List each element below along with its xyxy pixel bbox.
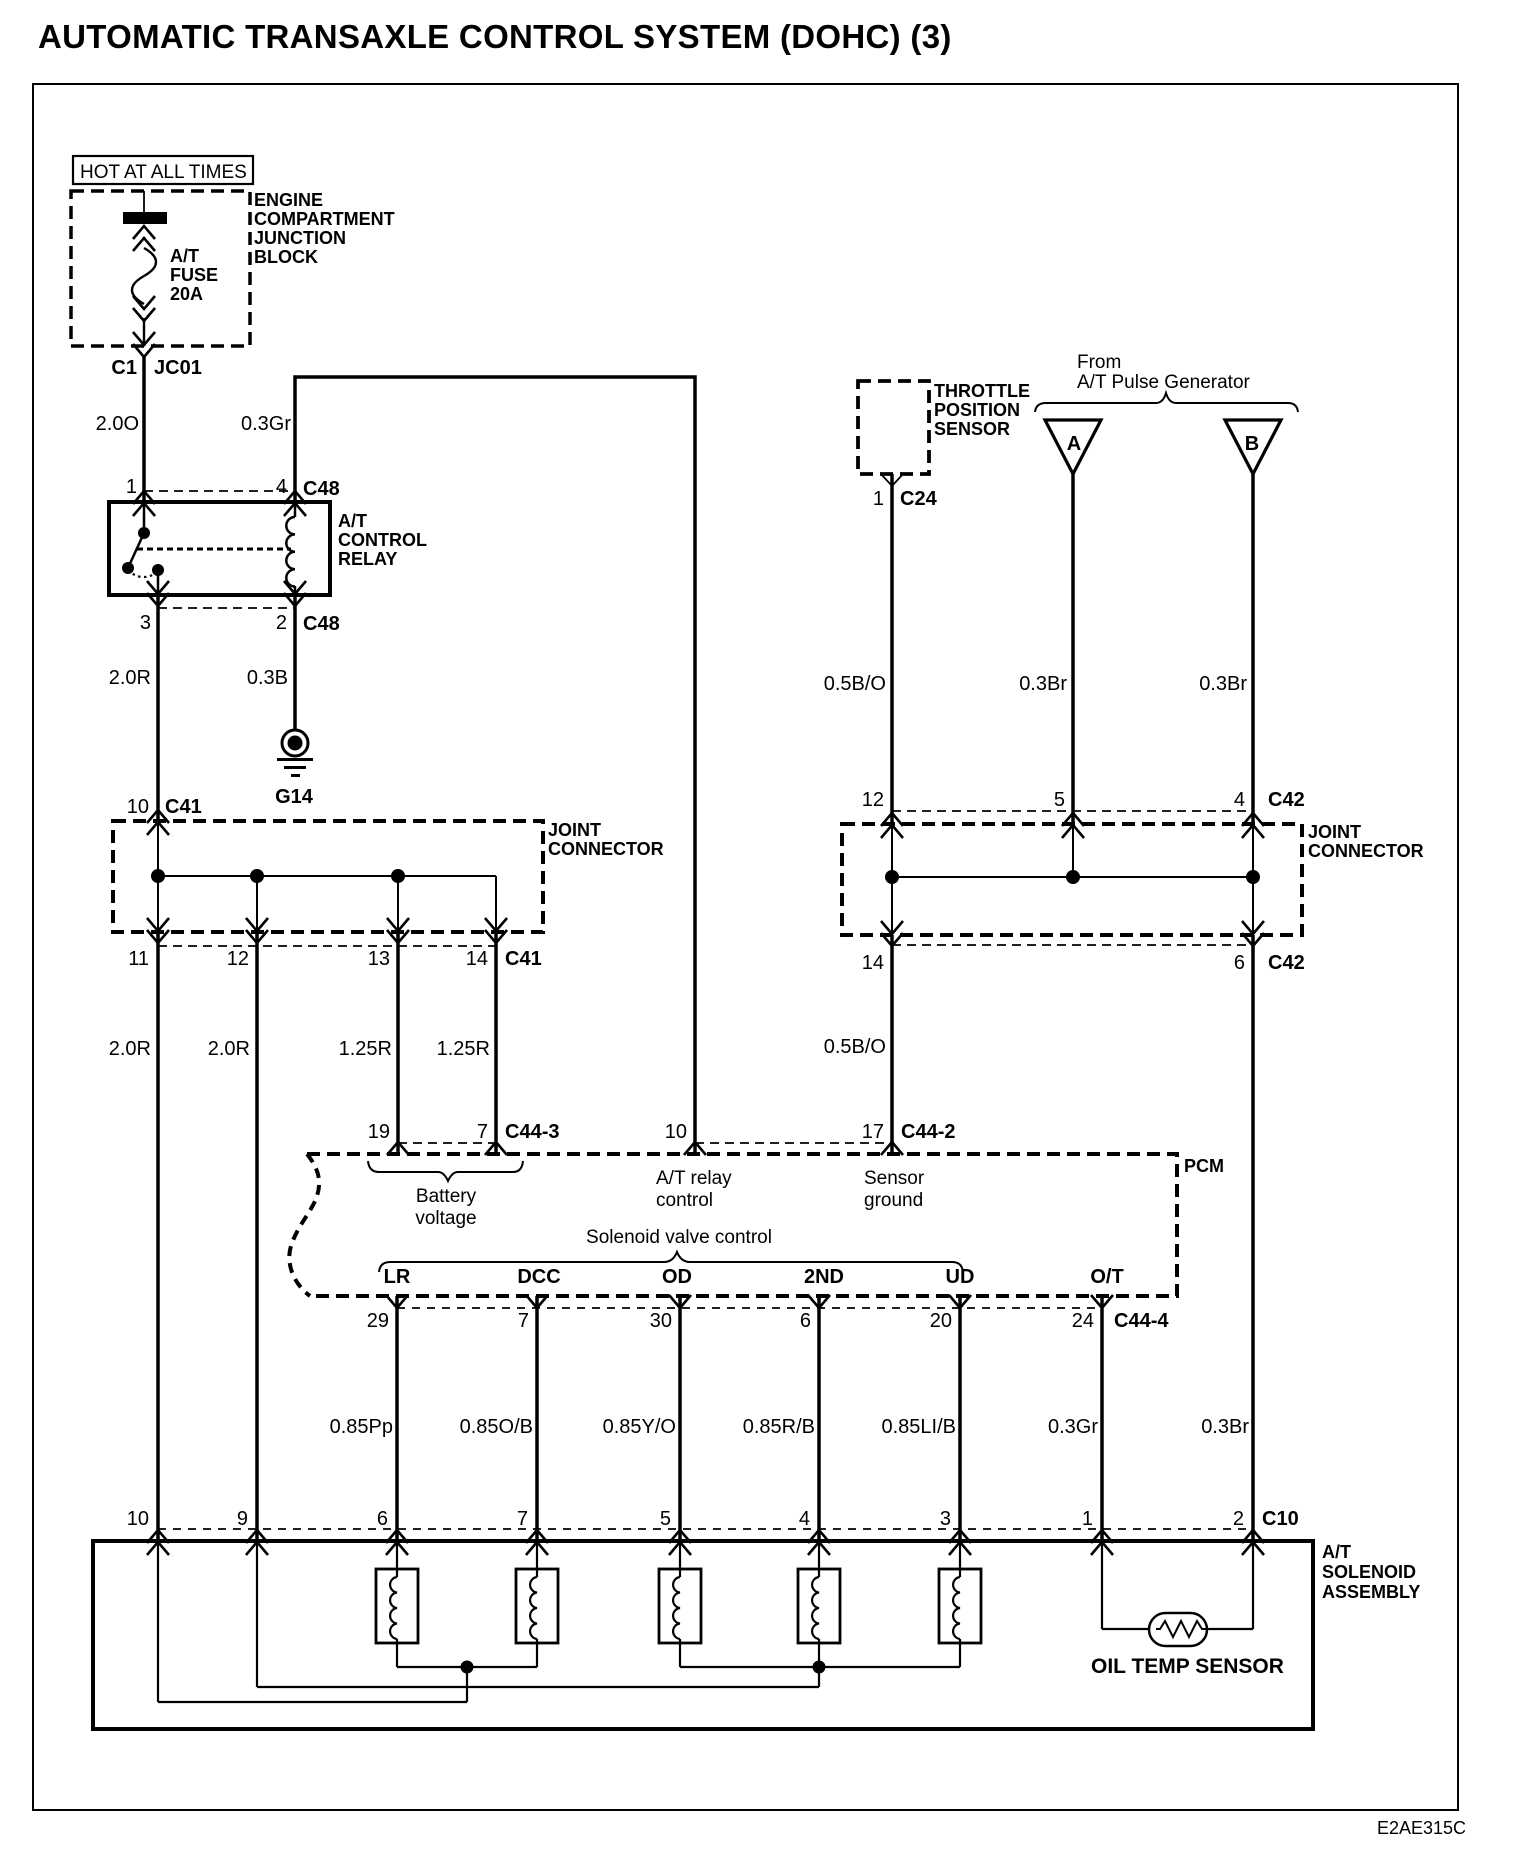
svg-text:29: 29 — [367, 1310, 389, 1332]
brace solenoid valve control pins — [379, 1252, 963, 1272]
svg-text:CONNECTOR: CONNECTOR — [1308, 841, 1424, 861]
C42 pin 12 label — [862, 789, 884, 811]
C41 pin 10 chevrons — [147, 810, 169, 835]
svg-text:DCC: DCC — [517, 1266, 560, 1288]
svg-text:FUSE: FUSE — [170, 265, 218, 285]
brace battery voltage pins — [368, 1161, 523, 1181]
connector label C1 — [111, 357, 137, 379]
PCM pin 20 label — [930, 1310, 952, 1332]
svg-text:C42: C42 — [1268, 789, 1305, 811]
svg-text:G14: G14 — [275, 786, 314, 808]
wire pin 9 internal to OD-2ND-UD junction — [257, 1541, 819, 1687]
wire value label 1.25R (pin 14) — [437, 1038, 490, 1060]
svg-text:O/T: O/T — [1090, 1266, 1123, 1288]
svg-text:10: 10 — [127, 796, 149, 818]
wire junction LR-DCC drop — [466, 1667, 468, 1702]
svg-text:CONNECTOR: CONNECTOR — [548, 839, 664, 859]
svg-text:0.3Br: 0.3Br — [1201, 1416, 1249, 1438]
relay switch armature — [128, 533, 144, 568]
C42 internal bus wire — [892, 876, 1253, 878]
relay pin 4 label — [276, 476, 287, 498]
wire value label 0.85R/B — [743, 1416, 815, 1438]
PCM pin 10 chevrons — [684, 1142, 706, 1155]
svg-text:6: 6 — [377, 1508, 388, 1530]
solenoid connector C10 pin 3 label — [940, 1508, 951, 1530]
solenoid connector C10 pin 5 label — [660, 1508, 671, 1530]
PCM pin 6 chevrons — [808, 1295, 830, 1308]
diagram code E2AE315C — [1377, 1818, 1466, 1838]
connector C1/JC01 chevrons — [133, 332, 155, 357]
solenoid connector C10 pin 6 label — [377, 1508, 388, 1530]
solenoid coil DCC feed wire — [536, 1541, 538, 1577]
svg-text:1: 1 — [126, 476, 137, 498]
PCM output label O/T — [1090, 1266, 1123, 1288]
C42 pin 12 chevrons — [881, 813, 903, 838]
svg-text:5: 5 — [660, 1508, 671, 1530]
svg-text:10: 10 — [127, 1508, 149, 1530]
C42 pin 5 chevrons — [1062, 813, 1084, 838]
relay switch output wire to pin 3 — [157, 570, 160, 595]
pulse generator terminal A (triangle) — [1045, 420, 1101, 474]
svg-text:control: control — [656, 1190, 713, 1211]
wire 0.85LI/B from PCM pin 20 to solenoid pin 3 — [958, 1296, 962, 1541]
wire value label 1.25R (pin 13) — [339, 1038, 392, 1060]
label box HOT AT ALL TIMES — [73, 156, 253, 184]
solenoid connector label C10 — [1262, 1508, 1299, 1530]
relay switch contact dot right — [152, 564, 164, 576]
svg-text:0.5B/O: 0.5B/O — [824, 673, 886, 695]
svg-text:19: 19 — [368, 1121, 390, 1143]
wire 0.3Gr from PCM pin 24 to solenoid pin 1 — [1100, 1296, 1104, 1541]
C42 connector label bottom — [1268, 952, 1305, 974]
svg-text:2ND: 2ND — [804, 1266, 844, 1288]
wire junction 2ND drop — [818, 1667, 820, 1687]
wire pin 10 internal to LR-DCC junction — [158, 1541, 467, 1702]
C42 internal drop wire to pin 6 — [1252, 877, 1254, 935]
svg-text:2: 2 — [1233, 1508, 1244, 1530]
wire 0.3B from relay pin 2 to ground G14 — [293, 595, 297, 730]
joint connector C42 name label — [1308, 822, 1424, 861]
PCM pin 30 label — [650, 1310, 672, 1332]
wire value label 0.3Br (B) — [1199, 673, 1247, 695]
relay pin 2 label — [276, 612, 287, 634]
solenoid coil 2ND feed wire — [818, 1541, 820, 1577]
svg-text:C1: C1 — [111, 357, 137, 379]
solenoid coil LR feed wire — [396, 1541, 398, 1577]
svg-text:30: 30 — [650, 1310, 672, 1332]
svg-text:11: 11 — [128, 948, 149, 970]
C41 bus junction dot 1 — [151, 869, 165, 883]
solenoid coil UD winding — [953, 1577, 960, 1639]
solenoid connector C10 pin 7 label — [517, 1508, 528, 1530]
PCM pin 20 chevrons — [949, 1295, 971, 1308]
solenoid coil UD feed wire — [959, 1541, 961, 1577]
svg-text:THROTTLE: THROTTLE — [934, 381, 1030, 401]
svg-text:C24: C24 — [900, 488, 938, 510]
joint connector C42 dashed box — [842, 824, 1302, 935]
wire UD coil to junction — [959, 1639, 961, 1667]
PCM function label A/T relay control — [656, 1168, 732, 1211]
C42 bus junction dot 3 — [1246, 870, 1260, 884]
C42 bus junction dot 2 — [1066, 870, 1080, 884]
C41 pin 13 label — [368, 948, 390, 970]
relay coil windings — [286, 517, 295, 587]
PCM pin 17 label — [862, 1121, 884, 1143]
C41 bus junction dot 3 — [391, 869, 405, 883]
svg-text:B: B — [1245, 433, 1259, 455]
wire 0.3Br from C42 pin 6 to solenoid pin 2 — [1251, 935, 1255, 1541]
wire 2.0R from relay pin 3 to joint connector C41 pin 10 — [156, 595, 160, 821]
fuse F1 bottom chevrons — [133, 296, 155, 321]
svg-text:SENSOR: SENSOR — [934, 419, 1010, 439]
wire 1.25R from C41 pin 13 to PCM pin 19 — [396, 932, 400, 1154]
wire 0.3Gr from relay pin 4 to PCM pin 10 — [295, 377, 695, 1154]
C41 internal drop wire to pin 12 — [256, 876, 258, 932]
C42 pin 4 label — [1234, 789, 1245, 811]
relay connector dashed line top C48 — [144, 490, 295, 492]
svg-text:1.25R: 1.25R — [437, 1038, 490, 1060]
svg-text:13: 13 — [368, 948, 390, 970]
C41 bus junction dot 2 — [250, 869, 264, 883]
svg-text:0.3Br: 0.3Br — [1019, 673, 1067, 695]
svg-text:A/T: A/T — [170, 246, 199, 266]
solenoid connector C10 pin 10 chevrons — [147, 1530, 169, 1555]
wire value label 0.3Br (C42 to C10) — [1201, 1416, 1249, 1438]
C42 pin 6 chevrons — [1242, 921, 1264, 946]
solenoid connector C10 pin 2 label — [1233, 1508, 1244, 1530]
PCM dashed box outline — [289, 1154, 1177, 1296]
relay connector label C48 bottom — [303, 613, 340, 635]
relay connector dashed line bottom C48 — [158, 607, 295, 609]
throttle position sensor dashed box — [858, 381, 929, 474]
PCM mating dashed line C44-2 — [695, 1142, 892, 1144]
svg-text:24: 24 — [1072, 1310, 1094, 1332]
C41 pin 14 chevrons — [485, 918, 507, 943]
svg-text:OD: OD — [662, 1266, 692, 1288]
relay connector label C48 top — [303, 478, 340, 500]
C10 mating dashed line — [158, 1528, 1253, 1530]
fuse label A/T FUSE 20A — [170, 246, 218, 304]
PCM mating dashed line C44-4 — [397, 1307, 1102, 1309]
svg-text:20: 20 — [930, 1310, 952, 1332]
svg-text:14: 14 — [862, 952, 884, 974]
wire fuse to connector C1 — [143, 318, 145, 346]
svg-text:CONTROL: CONTROL — [338, 530, 427, 550]
svg-text:POSITION: POSITION — [934, 400, 1020, 420]
wire junction bus LR-DCC — [397, 1666, 537, 1668]
svg-text:4: 4 — [799, 1508, 810, 1530]
wire 0.85O/B from PCM pin 7 to solenoid pin 7 — [535, 1296, 539, 1541]
oil temp sensor resistor element — [1156, 1621, 1206, 1637]
wire value label 2.0R (pin 12) — [208, 1038, 250, 1060]
svg-text:0.85LI/B: 0.85LI/B — [881, 1416, 956, 1438]
PCM output label OD — [662, 1266, 692, 1288]
PCM pin 24 label — [1072, 1310, 1094, 1332]
svg-text:7: 7 — [477, 1121, 488, 1143]
svg-text:0.85Y/O: 0.85Y/O — [603, 1416, 676, 1438]
svg-text:1: 1 — [873, 488, 884, 510]
connector label C24 — [900, 488, 938, 510]
svg-text:C44-2: C44-2 — [901, 1121, 955, 1143]
fuse F1 top chevrons — [133, 226, 155, 251]
PCM pin 19 chevrons — [387, 1142, 409, 1155]
C41 pin 11 chevrons — [147, 918, 169, 943]
svg-text:7: 7 — [518, 1310, 529, 1332]
ground G14 symbol — [277, 730, 313, 776]
solenoid coil LR winding — [390, 1577, 397, 1639]
joint connector C41 dashed box — [113, 821, 543, 932]
wire OD coil to junction — [679, 1639, 681, 1667]
relay mechanical link dashed line — [137, 548, 291, 551]
wire value label 2.0R (pin 11) — [109, 1038, 151, 1060]
relay K1 box (A/T control relay) — [109, 502, 330, 595]
C42 pin 14 label — [862, 952, 884, 974]
svg-text:17: 17 — [862, 1121, 884, 1143]
wire DCC coil to junction — [536, 1639, 538, 1667]
PCM connector label C44-4 — [1114, 1310, 1169, 1332]
relay pin 3 chevrons — [147, 581, 169, 606]
wire 0.5B/O from C42 pin 14 to PCM pin 17 — [890, 935, 894, 1154]
solenoid coil OD box — [659, 1569, 701, 1643]
svg-text:C48: C48 — [303, 613, 340, 635]
C42 pin 14 chevrons — [881, 921, 903, 946]
C41 internal bus wire — [158, 875, 496, 877]
solenoid assembly name label — [1322, 1542, 1420, 1602]
C42 pin 5 label — [1054, 789, 1065, 811]
solenoid coil OD winding — [673, 1577, 680, 1639]
PCM output label UD — [946, 1266, 975, 1288]
PCM pin 30 chevrons — [669, 1295, 691, 1308]
svg-text:BLOCK: BLOCK — [254, 247, 318, 267]
wire value label 0.5B/O (TPS) — [824, 673, 886, 695]
svg-text:5: 5 — [1054, 789, 1065, 811]
svg-text:C10: C10 — [1262, 1508, 1299, 1530]
svg-text:6: 6 — [1234, 952, 1245, 974]
C42 mating dashed line top — [892, 810, 1253, 812]
C41 pin 11 label — [128, 948, 149, 970]
wire junction bus OD-2ND-UD — [680, 1666, 960, 1668]
svg-text:AUTOMATIC TRANSAXLE CONTROL SY: AUTOMATIC TRANSAXLE CONTROL SYSTEM (DOHC… — [38, 18, 952, 55]
svg-text:HOT AT ALL TIMES: HOT AT ALL TIMES — [80, 162, 247, 183]
PCM name label — [1184, 1156, 1224, 1176]
svg-text:0.3Gr: 0.3Gr — [1048, 1416, 1098, 1438]
wire LR coil to junction — [396, 1639, 398, 1667]
solenoid connector C10 pin 9 label — [237, 1508, 248, 1530]
wire value label 0.3Gr (O/T) — [1048, 1416, 1098, 1438]
svg-text:4: 4 — [1234, 789, 1245, 811]
C41 pin 14 label — [466, 948, 488, 970]
relay pin 3 label — [140, 612, 151, 634]
TPS pin 1 label — [873, 488, 884, 510]
connector label JC01 — [154, 357, 202, 379]
brace under pulse generator note — [1035, 393, 1298, 412]
solenoid connector C10 pin 4 label — [799, 1508, 810, 1530]
C42 mating dashed line bottom — [892, 944, 1253, 946]
svg-text:LR: LR — [384, 1266, 411, 1288]
C41 pin 13 chevrons — [387, 918, 409, 943]
svg-text:C48: C48 — [303, 478, 340, 500]
svg-text:3: 3 — [140, 612, 151, 634]
svg-text:JUNCTION: JUNCTION — [254, 228, 346, 248]
svg-text:0.85O/B: 0.85O/B — [460, 1416, 533, 1438]
svg-text:0.3Br: 0.3Br — [1199, 673, 1247, 695]
wire from junction block top to fuse — [143, 191, 145, 213]
junction block name label — [254, 190, 395, 267]
wire 0.3Br from terminal A to C42 pin 5 — [1071, 474, 1075, 823]
oil temp sensor feed wire left — [1102, 1541, 1149, 1629]
svg-text:0.85Pp: 0.85Pp — [330, 1416, 393, 1438]
TPS pin 1 chevron — [881, 474, 903, 486]
wire value label 0.85LI/B — [881, 1416, 956, 1438]
oil temp sensor feed wire right — [1207, 1541, 1253, 1629]
A/T solenoid assembly box — [93, 1541, 1313, 1729]
svg-text:JOINT: JOINT — [1308, 822, 1361, 842]
PCM pin 6b label — [800, 1310, 811, 1332]
solenoid coil OD feed wire — [679, 1541, 681, 1577]
PCM pin 29 chevrons — [386, 1295, 408, 1308]
wire 2.0R from C41 pin 11 to solenoid pin 10 — [156, 932, 160, 1541]
C42 internal wire pin12 to bus — [891, 823, 893, 877]
relay switch dotted travel arc — [128, 570, 158, 577]
svg-text:COMPARTMENT: COMPARTMENT — [254, 209, 395, 229]
wire 0.85Pp from PCM pin 29 to solenoid pin 6 — [395, 1296, 399, 1541]
wire value label 2.0O — [96, 413, 139, 435]
svg-text:C41: C41 — [165, 796, 202, 818]
title text — [38, 18, 952, 55]
svg-text:OIL TEMP SENSOR: OIL TEMP SENSOR — [1091, 1655, 1284, 1678]
wire 0.85Y/O from PCM pin 30 to solenoid pin 5 — [678, 1296, 682, 1541]
svg-text:JC01: JC01 — [154, 357, 202, 379]
fuse F1 element (wavy line) — [132, 248, 156, 304]
wire 0.5B/O from TPS to joint connector C42 pin 12 — [890, 474, 894, 823]
solenoid connector C10 pin 4 chevrons — [808, 1530, 830, 1555]
C42 pin 6 label — [1234, 952, 1245, 974]
svg-text:0.5B/O: 0.5B/O — [824, 1036, 886, 1058]
C41 pin 12 label — [227, 948, 249, 970]
C42 bus junction dot 1 — [885, 870, 899, 884]
svg-text:10: 10 — [665, 1121, 687, 1143]
svg-text:1: 1 — [1082, 1508, 1093, 1530]
svg-text:ASSEMBLY: ASSEMBLY — [1322, 1582, 1420, 1602]
PCM pin 17 chevrons — [881, 1142, 903, 1155]
svg-text:0.3B: 0.3B — [247, 667, 288, 689]
wire value label 0.85Pp — [330, 1416, 393, 1438]
C42 internal drop wire to pin 14 — [891, 877, 893, 935]
svg-text:ENGINE: ENGINE — [254, 190, 323, 210]
throttle position sensor name label — [934, 381, 1030, 439]
svg-text:Sensor: Sensor — [864, 1168, 925, 1189]
wire 2.0O from JC01 to relay pin 1 — [142, 357, 146, 502]
relay coil wire to pin 2 — [294, 586, 297, 595]
wire value label 0.3Gr — [241, 413, 291, 435]
relay name label A/T CONTROL RELAY — [338, 511, 427, 569]
C42 internal wire pin5 to bus — [1072, 823, 1074, 877]
oil temp sensor label — [1091, 1655, 1284, 1678]
wire 1.25R from C41 pin 14 to PCM pin 7 — [494, 932, 498, 1154]
svg-text:C41: C41 — [505, 948, 542, 970]
C41 connector label top — [165, 796, 202, 818]
solenoid coil 2ND box — [798, 1569, 840, 1643]
PCM mating dashed line C44-3 — [398, 1142, 496, 1144]
solenoid connector C10 pin 3 chevrons — [949, 1530, 971, 1555]
svg-text:2.0R: 2.0R — [109, 1038, 151, 1060]
PCM pin 24 chevrons — [1091, 1295, 1113, 1308]
PCM function label Solenoid valve control — [586, 1227, 772, 1248]
svg-text:C44-3: C44-3 — [505, 1121, 559, 1143]
svg-text:6: 6 — [800, 1310, 811, 1332]
PCM pin 7b label — [518, 1310, 529, 1332]
svg-text:12: 12 — [862, 789, 884, 811]
svg-text:SOLENOID: SOLENOID — [1322, 1562, 1416, 1582]
wire value label 0.3Br (A) — [1019, 673, 1067, 695]
C42 internal wire pin4 to bus — [1252, 823, 1254, 877]
svg-text:2.0O: 2.0O — [96, 413, 139, 435]
wire 0.3Br from terminal B to C42 pin 4 — [1251, 474, 1255, 823]
wire 2ND coil to junction — [818, 1639, 820, 1667]
PCM pin 7b chevrons — [526, 1295, 548, 1308]
junction dot LR-DCC — [461, 1661, 474, 1674]
wire 2.0R from C41 pin 12 to solenoid pin 9 — [255, 932, 259, 1541]
svg-text:voltage: voltage — [415, 1208, 476, 1229]
solenoid coil 2ND winding — [812, 1577, 819, 1639]
note text From A/T Pulse Generator — [1077, 352, 1251, 393]
relay coil wire from pin 4 — [294, 502, 297, 517]
PCM connector label C44-2 — [901, 1121, 955, 1143]
svg-text:2.0R: 2.0R — [109, 667, 151, 689]
svg-text:UD: UD — [946, 1266, 975, 1288]
oil temp sensor body — [1149, 1613, 1207, 1646]
svg-text:E2AE315C: E2AE315C — [1377, 1818, 1466, 1838]
solenoid coil DCC box — [516, 1569, 558, 1643]
relay pin 4 chevrons — [284, 491, 306, 516]
svg-text:C44-4: C44-4 — [1114, 1310, 1169, 1332]
solenoid connector C10 pin 10 label — [127, 1508, 149, 1530]
solenoid connector C10 pin 9 chevrons — [246, 1530, 268, 1555]
solenoid connector C10 pin 5 chevrons — [669, 1530, 691, 1555]
PCM connector label C44-3 — [505, 1121, 559, 1143]
PCM pin 7 chevrons — [485, 1142, 507, 1155]
wire value label 0.5B/O (C42) — [824, 1036, 886, 1058]
relay switch contact dot left — [122, 562, 134, 574]
svg-text:Solenoid valve control: Solenoid valve control — [586, 1227, 772, 1248]
wire value label 0.85O/B — [460, 1416, 533, 1438]
svg-text:7: 7 — [517, 1508, 528, 1530]
PCM pin 19 label — [368, 1121, 390, 1143]
C41 internal drop wire to pin 13 — [397, 876, 399, 932]
C42 pin 4 chevrons — [1242, 813, 1264, 838]
svg-text:A/T relay: A/T relay — [656, 1168, 732, 1189]
C41 mating dashed line bottom — [158, 945, 496, 947]
C41 internal drop wire to pin 14 — [495, 876, 497, 932]
relay pin 1 chevrons — [133, 491, 155, 516]
PCM output label 2ND — [804, 1266, 844, 1288]
C41 pin 12 chevrons — [246, 918, 268, 943]
svg-text:Battery: Battery — [416, 1186, 477, 1207]
PCM pin 29 label — [367, 1310, 389, 1332]
junction dot OD-2ND-UD — [813, 1661, 826, 1674]
solenoid coil LR box — [376, 1569, 418, 1643]
PCM function label Battery voltage — [415, 1186, 476, 1229]
solenoid coil DCC winding — [530, 1577, 537, 1639]
svg-text:4: 4 — [276, 476, 287, 498]
C41 connector label bottom — [505, 948, 542, 970]
solenoid connector C10 pin 1 chevrons — [1091, 1530, 1113, 1555]
svg-text:A: A — [1067, 433, 1081, 455]
svg-text:A/T Pulse Generator: A/T Pulse Generator — [1077, 372, 1251, 393]
svg-text:2: 2 — [276, 612, 287, 634]
PCM pin 10 label — [665, 1121, 687, 1143]
joint connector C41 name label — [548, 820, 664, 859]
